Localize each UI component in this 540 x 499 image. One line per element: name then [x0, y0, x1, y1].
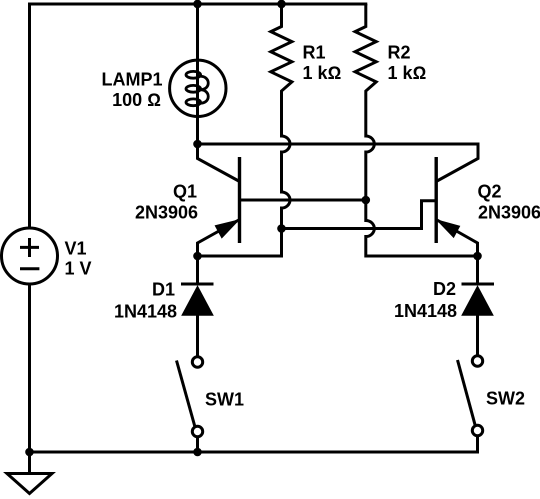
resistor R2: [355, 4, 376, 200]
svg-text:2N3906: 2N3906: [478, 203, 540, 223]
svg-text:1N4148: 1N4148: [394, 301, 457, 321]
junction: lamp bottom node A: [193, 140, 202, 149]
wire: R2 bottom continues past cross wire down to Q2 emitter row: [366, 200, 478, 256]
junction: Q2 base / R1 bottom: [277, 224, 286, 233]
svg-text:SW2: SW2: [486, 389, 525, 409]
switch SW2: [458, 356, 483, 454]
svg-text:D2: D2: [433, 279, 456, 299]
wire: ground stub below rail: [28, 452, 31, 474]
wire: lamp feed from top rail through lamp to node A: [196, 4, 199, 144]
wire: Q1 base to R2 bottom (y=200): [240, 199, 366, 202]
transistor Q2: [436, 144, 478, 256]
junction: Q1 base / R2 bottom: [362, 196, 371, 205]
svg-text:SW1: SW1: [205, 390, 244, 410]
svg-text:R2: R2: [388, 43, 411, 63]
switch SW1: [177, 357, 203, 452]
resistor R1: [271, 4, 292, 229]
svg-text:Q2: Q2: [478, 182, 502, 202]
wire: Q2 base step to R1 bottom (y=228.5): [282, 201, 437, 229]
wire: left rail from V1 minus terminal down to bottom rail: [28, 284, 31, 452]
svg-text:2N3906: 2N3906: [135, 203, 198, 223]
wire: bottom ground rail: [30, 451, 478, 454]
wire: top supply rail and left rail down to V1: [30, 4, 368, 228]
junction: SW1 / bottom rail: [193, 448, 202, 457]
junction: left rail / bottom rail / ground: [25, 448, 34, 457]
node A wire: lamp bottom / Q1 collector to Q2 collector (y=144): [198, 143, 480, 146]
transistor Q1: [198, 144, 240, 256]
svg-text:100 Ω: 100 Ω: [112, 90, 161, 110]
svg-text:1 kΩ: 1 kΩ: [388, 63, 427, 83]
voltage source V1: [2, 228, 58, 284]
wire: R1 bottom down to Q1 emitter row: [198, 229, 282, 257]
svg-text:1N4148: 1N4148: [114, 302, 177, 322]
svg-text:V1: V1: [65, 239, 87, 259]
junction: Q2 emitter / D2 / R2 wire: [473, 252, 482, 261]
svg-text:D1: D1: [152, 280, 175, 300]
ground: [7, 474, 52, 494]
svg-text:1 V: 1 V: [65, 259, 92, 279]
junction: top rail / lamp: [193, 0, 202, 8]
lamp LAMP1: [170, 60, 226, 116]
diode D1: [181, 256, 214, 357]
svg-text:1 kΩ: 1 kΩ: [303, 63, 342, 83]
junction: top rail / R1: [277, 0, 286, 8]
svg-text:Q1: Q1: [173, 182, 197, 202]
junction: Q1 emitter / D1 / R1 wire: [193, 252, 202, 261]
diode D2: [462, 256, 495, 356]
svg-text:R1: R1: [303, 43, 326, 63]
svg-text:LAMP1: LAMP1: [101, 70, 162, 90]
